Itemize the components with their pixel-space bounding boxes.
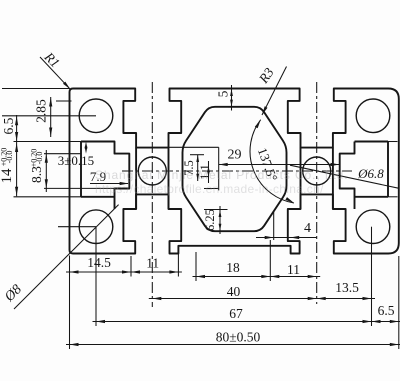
arrow 67 a bbox=[96, 320, 105, 323]
dim line 11b bbox=[267, 276, 320, 278]
dim line 6.5b bbox=[368, 321, 400, 323]
svg-text:3±0.15: 3±0.15 bbox=[58, 153, 94, 168]
hole bottom-left Ø8 bbox=[79, 210, 113, 244]
dim line 7.5 bbox=[197, 155, 199, 181]
dim line 18 bbox=[193, 276, 274, 278]
dim line 14.5 bbox=[66, 271, 135, 273]
ext 188.4 bbox=[44, 187, 115, 189]
ext right edge down bbox=[398, 256, 400, 349]
svg-text:14.5: 14.5 bbox=[87, 255, 111, 270]
svg-text:5: 5 bbox=[216, 90, 231, 97]
dim line 40 bbox=[149, 298, 320, 300]
svg-text:4: 4 bbox=[304, 221, 311, 236]
arrow 7.5 a bbox=[196, 155, 199, 162]
arrow 29 a bbox=[219, 163, 228, 166]
svg-text:-0.0: -0.0 bbox=[5, 151, 14, 164]
arrow 40 a bbox=[152, 297, 161, 300]
svg-text:Shanghai Minjie Metal Products: Shanghai Minjie Metal Products Co., Ltd. bbox=[95, 168, 348, 182]
arrow 4 b bbox=[290, 236, 299, 239]
arrow 80 a bbox=[70, 343, 79, 346]
leader R3 bbox=[262, 67, 287, 116]
arrow 80 b bbox=[390, 343, 399, 346]
svg-text:6.5: 6.5 bbox=[378, 303, 395, 318]
ext line 141.5 left bbox=[14, 141, 82, 143]
ext hexagon top for 5 bbox=[228, 106, 240, 108]
ext 4 left bbox=[273, 211, 275, 240]
arrow 29 b bbox=[331, 163, 340, 166]
arrow 8.3 a bbox=[45, 154, 48, 163]
arrow 4 a bbox=[265, 236, 274, 239]
arrow R3 bbox=[262, 106, 268, 115]
arrow 67 b bbox=[363, 320, 372, 323]
ext 270.3 down bbox=[269, 240, 271, 281]
arrow 11a b bbox=[169, 270, 178, 273]
arrow arc a bbox=[255, 120, 261, 129]
leader Ø6.8 bbox=[290, 165, 399, 188]
hole middle-right Ø6.8 bbox=[303, 157, 331, 185]
ext top face left bbox=[2, 88, 70, 90]
centreline vertical left column bbox=[151, 82, 153, 307]
ext 154.7 stub bbox=[190, 154, 204, 156]
svg-text:6.5: 6.5 bbox=[1, 117, 16, 134]
arrow 6.25 b bbox=[219, 224, 222, 231]
dim line 8.3 bbox=[45, 150, 47, 192]
arrow 3 a bbox=[85, 142, 88, 149]
profile outer outline with T-slots bbox=[70, 89, 399, 254]
ext hole left down bbox=[95, 227, 97, 326]
dim line 80 bbox=[66, 344, 400, 346]
arrow 40 b bbox=[308, 297, 317, 300]
svg-text:11: 11 bbox=[146, 256, 159, 271]
ext vertical 218.7 bbox=[218, 147, 220, 190]
ext 153.6 bbox=[44, 153, 81, 155]
ext channel floor bbox=[169, 146, 219, 148]
ext line 141.5 right bbox=[388, 141, 398, 143]
arrow 7.5 b bbox=[196, 174, 199, 181]
arrow 3 b bbox=[85, 147, 88, 154]
svg-text:18: 18 bbox=[226, 260, 240, 275]
svg-text:R1: R1 bbox=[41, 49, 63, 71]
dim line 29 bbox=[219, 164, 340, 166]
arrow 13.5 a bbox=[317, 297, 326, 300]
svg-text:80±0.50: 80±0.50 bbox=[216, 330, 261, 345]
ext circle centre top-left bbox=[2, 115, 96, 117]
svg-text:https://chaletprofile.en.made-: https://chaletprofile.en.made-in-china.c… bbox=[95, 182, 324, 196]
arrow 5 a bbox=[230, 89, 233, 96]
right column web walls bbox=[301, 148, 333, 209]
hole bottom-right Ø8 bbox=[356, 210, 390, 244]
svg-text:13.5: 13.5 bbox=[335, 280, 359, 295]
left chamber wall bbox=[81, 142, 129, 210]
arrow 5 b bbox=[230, 100, 233, 107]
svg-text:-0.0: -0.0 bbox=[35, 152, 44, 165]
leader R1 bbox=[40, 57, 70, 89]
arrow R1 bbox=[63, 82, 70, 90]
arrow 6.5 b bbox=[15, 132, 18, 141]
svg-text:67: 67 bbox=[229, 306, 243, 321]
dim line 67 bbox=[93, 321, 376, 323]
arrow 6.5b a bbox=[372, 320, 381, 323]
ext 178.4 down bbox=[177, 247, 179, 277]
arrow 7.9 bbox=[120, 182, 129, 185]
arrow 11b a bbox=[270, 275, 279, 278]
hole top-left Ø8 bbox=[79, 99, 113, 133]
svg-text:14: 14 bbox=[0, 168, 15, 184]
arrow 8.3 b bbox=[45, 179, 48, 188]
svg-text:11: 11 bbox=[287, 262, 300, 277]
left column web walls bbox=[136, 148, 168, 209]
dim line 11a bbox=[128, 271, 182, 273]
arrow 14.5 b bbox=[122, 270, 131, 273]
centreline horizontal mid bbox=[122, 170, 352, 172]
arrow 14 b bbox=[15, 187, 18, 196]
dim line 6.5-14 bbox=[16, 115, 18, 196]
arrow 2.85 a bbox=[49, 98, 52, 107]
arrow 1.1 b bbox=[207, 171, 210, 177]
leader 7.9 bbox=[90, 183, 128, 185]
dim line 5 bbox=[231, 85, 233, 111]
svg-text:29: 29 bbox=[228, 148, 242, 163]
ext hole right down bbox=[371, 227, 373, 326]
arrow 6.5b b bbox=[390, 320, 399, 323]
arrow 6.25 a bbox=[219, 210, 222, 217]
dim line 6.25 bbox=[219, 206, 221, 234]
ext 131 down bbox=[130, 256, 132, 277]
ext line 196.8 right bbox=[388, 196, 398, 198]
ext 188.5 stub bbox=[204, 188, 219, 190]
right chamber wall bbox=[340, 142, 388, 210]
arrow 18 b bbox=[261, 275, 270, 278]
dim line 1.1 bbox=[208, 161, 210, 183]
arrow 18 a bbox=[196, 275, 205, 278]
arrow arc b bbox=[285, 197, 294, 203]
arrow 14 a bbox=[15, 143, 18, 152]
ext 196 down bbox=[195, 252, 197, 281]
central octagonal cavity bbox=[183, 107, 287, 231]
dim line 4 bbox=[256, 237, 317, 239]
ext line 196.8 left bbox=[14, 196, 82, 198]
hole top-right Ø8 bbox=[356, 99, 390, 133]
arrow 2.85 b bbox=[49, 128, 52, 137]
svg-text:R3: R3 bbox=[255, 65, 277, 87]
arrow 11a a bbox=[131, 270, 140, 273]
arrow 11b b bbox=[308, 275, 317, 278]
dim line 13.5 bbox=[313, 298, 375, 300]
ext bottom hole centre bbox=[58, 226, 96, 228]
svg-text:6.25: 6.25 bbox=[203, 209, 217, 231]
ext lip stub bbox=[56, 100, 72, 102]
svg-text:40: 40 bbox=[227, 284, 241, 299]
arrow 14.5 a bbox=[70, 270, 79, 273]
angle arc 137.5 bbox=[250, 120, 294, 203]
arrow 1.1 a bbox=[207, 166, 210, 172]
svg-text:Ø6.8: Ø6.8 bbox=[357, 166, 384, 181]
arrow 6.5 a bbox=[15, 116, 18, 125]
leader Ø8 bbox=[14, 205, 119, 309]
svg-text:2.85: 2.85 bbox=[34, 99, 49, 123]
ext left edge down bbox=[69, 256, 71, 350]
centreline vertical right column bbox=[316, 82, 318, 304]
ext 6.25 top bbox=[204, 209, 228, 211]
svg-text:8.3: 8.3 bbox=[29, 166, 44, 183]
arrow 13.5 b bbox=[363, 297, 372, 300]
hole middle-left Ø6.8 bbox=[138, 157, 166, 185]
dim line 2.85 bbox=[50, 97, 52, 137]
